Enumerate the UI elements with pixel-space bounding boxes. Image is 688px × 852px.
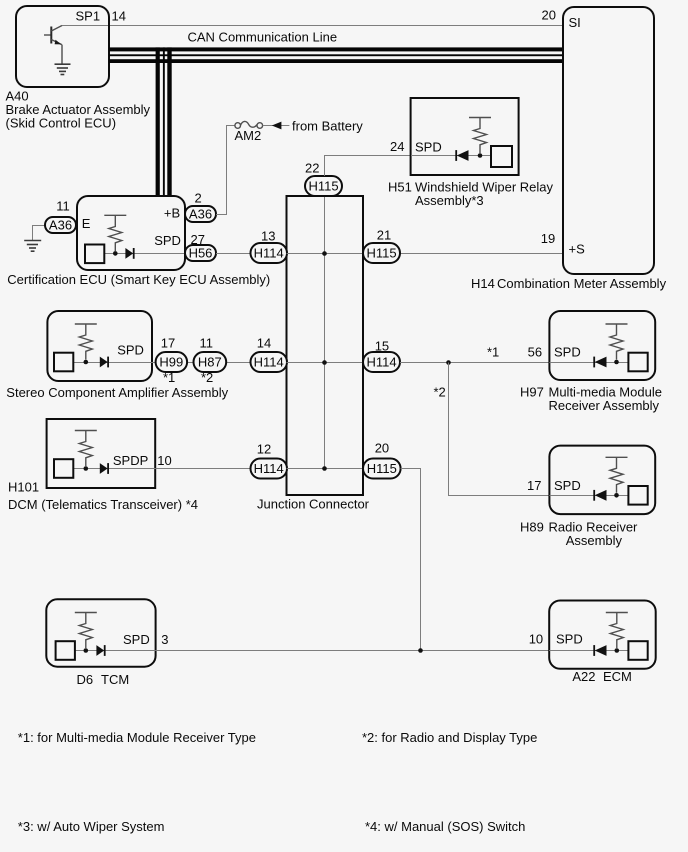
svg-text:+B: +B	[164, 206, 180, 221]
svg-text:H89: H89	[520, 520, 544, 535]
svg-text:*2: *2	[434, 385, 446, 400]
label A22 ECM	[572, 669, 631, 684]
junction dot (certification ECU)	[113, 251, 118, 256]
svg-text:H99: H99	[159, 355, 183, 370]
svg-text:14: 14	[257, 336, 271, 351]
svg-text:20: 20	[542, 8, 556, 23]
svg-text:17: 17	[161, 336, 175, 351]
diode (ECM)	[594, 645, 606, 656]
resistor (TCM)	[75, 613, 97, 649]
wire branch row2 to H89	[449, 363, 550, 496]
svg-text:19: 19	[541, 231, 555, 246]
junction dot row4	[418, 648, 423, 653]
junction dot (stereo)	[84, 360, 89, 365]
label H14 Combination Meter Assembly	[471, 276, 667, 291]
svg-text:H114: H114	[254, 246, 284, 261]
label H89 Radio Receiver Assembly	[520, 520, 638, 548]
junction connector bus line	[324, 196, 326, 469]
ECU H101 DCM (Telematics Transceiver)	[47, 419, 156, 488]
junction dot (H51)	[478, 153, 483, 158]
wire from A36 pin 2 to fuse AM2	[216, 126, 235, 215]
wire row2 stereo to junction connector	[152, 362, 287, 364]
wire from H115 pin 22 to windshield wiper relay	[325, 156, 412, 177]
svg-text:Junction Connector: Junction Connector	[257, 497, 370, 512]
connector H87 pin 11	[194, 336, 227, 386]
svg-text:*2: for Radio and Display Type: *2: for Radio and Display Type	[362, 730, 537, 745]
svg-text:H114: H114	[254, 461, 284, 476]
wire row1 inside junction connector	[287, 253, 364, 255]
svg-text:+S: +S	[569, 242, 586, 257]
wire row1 H56 to junction connector	[216, 253, 287, 255]
resistor (stereo)	[75, 324, 97, 360]
diode (TCM)	[96, 645, 104, 656]
diode (H89)	[594, 490, 606, 501]
svg-text:SPDP: SPDP	[113, 453, 148, 468]
svg-text:Receiver Assembly: Receiver Assembly	[549, 398, 660, 413]
svg-text:TCM: TCM	[101, 672, 129, 687]
wire from SP1 collector to H14 SI	[62, 25, 563, 27]
wire inside H97	[549, 362, 628, 364]
svg-text:H97: H97	[520, 385, 544, 400]
terminal square (H89)	[628, 486, 647, 505]
svg-text:SI: SI	[569, 15, 581, 30]
wire row3 inside junction connector	[287, 468, 364, 470]
connector H99 pin 17	[156, 336, 188, 386]
svg-text:H56: H56	[189, 246, 213, 261]
svg-text:Certification ECU (Smart Key E: Certification ECU (Smart Key ECU Assembl…	[7, 272, 270, 287]
svg-text:*2: *2	[201, 370, 213, 385]
svg-text:H87: H87	[198, 355, 222, 370]
connector H114 pin 14	[251, 336, 288, 373]
svg-text:H101: H101	[8, 480, 39, 495]
svg-text:AM2: AM2	[235, 128, 262, 143]
svg-text:SPD: SPD	[117, 343, 144, 358]
connector H114 pin 12	[251, 442, 288, 479]
svg-text:H14: H14	[471, 276, 495, 291]
connector H56 pin 27	[185, 232, 216, 261]
svg-text:A36: A36	[189, 207, 212, 222]
svg-text:H51: H51	[388, 180, 412, 195]
CAN bus horizontal	[109, 47, 563, 63]
svg-text:H115: H115	[367, 461, 397, 476]
connector H115 pin 21	[363, 228, 400, 264]
ground (Certification ECU pin E)	[24, 226, 45, 252]
diode (H97)	[594, 357, 606, 368]
terminal square (certification ECU)	[85, 245, 104, 264]
label D6 TCM	[77, 672, 130, 687]
wire inside H89	[549, 495, 628, 497]
terminal square (H97)	[628, 353, 647, 372]
label H51 Windshield Wiper Relay Assembly	[388, 180, 553, 208]
svg-text:20: 20	[375, 441, 389, 456]
svg-text:H114: H114	[254, 355, 284, 370]
svg-text:14: 14	[112, 9, 126, 24]
svg-text:SPD: SPD	[415, 140, 442, 155]
wire row2 inside junction connector	[287, 362, 364, 364]
junction dot row3	[322, 466, 327, 471]
label H97 Multi-media Module Receiver Assembly	[520, 385, 662, 413]
wire inside stereo amplifier	[74, 362, 153, 364]
wire row3 to TCM-ECM wire	[401, 469, 421, 651]
fuse AM2	[235, 121, 263, 143]
svg-text:22: 22	[305, 161, 319, 176]
ECU H97 Multi-media Module Receiver Assembly	[549, 311, 655, 380]
wire row2 to H97	[400, 362, 549, 364]
ground (A40 transistor emitter)	[55, 64, 71, 74]
diode (DCM)	[100, 463, 108, 474]
connector H115 pin 20	[363, 441, 401, 479]
connector H115 pin 22	[305, 161, 342, 197]
svg-text:Assembly*3: Assembly*3	[415, 193, 484, 208]
resistor (H89)	[606, 457, 628, 493]
arrow from Battery	[272, 122, 282, 130]
svg-text:*3: w/ Auto Wiper System: *3: w/ Auto Wiper System	[18, 819, 165, 834]
ECU Certification ECU (Smart Key ECU Assembly)	[77, 196, 185, 270]
svg-text:(Skid Control ECU): (Skid Control ECU)	[6, 115, 117, 130]
svg-text:*1: *1	[487, 345, 499, 360]
svg-text:CAN Communication Line: CAN Communication Line	[188, 30, 338, 45]
transistor SP1	[44, 26, 62, 65]
resistor (DCM)	[75, 431, 97, 467]
ECU H89 Radio Receiver Assembly	[549, 446, 655, 514]
wire inside DCM	[74, 468, 156, 470]
terminal square (ECM)	[628, 641, 647, 660]
resistor (certification ECU)	[104, 215, 126, 251]
wire inside H51	[411, 155, 491, 157]
terminal square (H51)	[491, 146, 512, 167]
junction dot row2	[322, 360, 327, 365]
svg-text:D6: D6	[77, 672, 94, 687]
label A40 Brake Actuator Assembly	[6, 89, 151, 131]
svg-text:SPD: SPD	[556, 632, 583, 647]
connector A36 pin 11	[45, 199, 76, 234]
svg-text:H115: H115	[308, 179, 338, 194]
diode (stereo)	[100, 357, 108, 368]
svg-text:*4: w/ Manual (SOS) Switch: *4: w/ Manual (SOS) Switch	[365, 819, 525, 834]
svg-text:11: 11	[56, 199, 70, 214]
svg-text:DCM (Telematics Transceiver) *: DCM (Telematics Transceiver) *4	[8, 497, 198, 512]
svg-text:Combination Meter Assembly: Combination Meter Assembly	[497, 276, 667, 291]
junction dot (TCM)	[84, 648, 89, 653]
wire row3 DCM to junction connector	[155, 468, 286, 470]
connector H114 pin 13	[251, 229, 288, 264]
junction dot (H97)	[614, 360, 619, 365]
svg-text:from Battery: from Battery	[292, 118, 363, 133]
junction connector box	[287, 196, 364, 495]
svg-text:17: 17	[527, 478, 541, 493]
terminal square (DCM)	[54, 459, 73, 478]
svg-text:13: 13	[261, 229, 275, 244]
svg-text:Stereo Component Amplifier Ass: Stereo Component Amplifier Assembly	[6, 385, 228, 400]
svg-text:E: E	[82, 216, 91, 231]
svg-text:A36: A36	[49, 218, 72, 233]
wire inside certification ECU	[104, 253, 185, 255]
wire inside ECM	[549, 650, 628, 652]
svg-text:2: 2	[195, 191, 202, 206]
wire +S from H115(21) to H14 pin 19	[401, 253, 564, 255]
terminal square (stereo)	[54, 353, 73, 372]
connector H114 pin 15	[363, 339, 400, 373]
svg-text:3: 3	[161, 632, 168, 647]
svg-text:11: 11	[200, 336, 214, 351]
svg-text:SPD: SPD	[554, 345, 581, 360]
diode (H51)	[456, 150, 468, 161]
svg-text:12: 12	[257, 442, 271, 457]
junction dot row2 branch	[446, 360, 451, 365]
svg-text:SP1: SP1	[76, 9, 101, 24]
junction dot row1	[322, 251, 327, 256]
wire inside TCM	[75, 650, 156, 652]
relay H51 Windshield Wiper Relay Assembly	[411, 98, 519, 175]
svg-text:24: 24	[390, 139, 404, 154]
resistor (H51)	[469, 118, 491, 154]
resistor (H97)	[606, 324, 628, 360]
svg-text:SPD: SPD	[154, 233, 181, 248]
resistor (ECM)	[606, 613, 628, 649]
svg-text:*1: for Multi-media Module Rec: *1: for Multi-media Module Receiver Type	[18, 730, 256, 745]
ECU Stereo Component Amplifier Assembly	[47, 311, 152, 381]
connector A36 pin 2	[185, 191, 216, 223]
svg-text:21: 21	[377, 228, 391, 243]
ECU A22 ECM	[549, 601, 656, 669]
junction dot (ECM)	[615, 648, 620, 653]
svg-text:Assembly: Assembly	[566, 533, 623, 548]
junction dot (DCM)	[84, 466, 89, 471]
svg-text:SPD: SPD	[554, 478, 581, 493]
terminal square (TCM)	[56, 641, 75, 660]
ECU H14 Combination Meter Assembly	[563, 7, 654, 274]
CAN bus vertical branch	[156, 47, 172, 196]
svg-text:*1: *1	[163, 370, 175, 385]
ECU D6 TCM	[46, 599, 155, 666]
svg-text:ECM: ECM	[603, 669, 632, 684]
svg-text:A22: A22	[572, 669, 595, 684]
svg-text:10: 10	[529, 632, 543, 647]
wire to battery arrow	[263, 125, 290, 127]
svg-text:SPD: SPD	[123, 632, 150, 647]
wire row4 TCM to ECM	[156, 650, 550, 652]
label H101 DCM	[8, 480, 198, 513]
junction dot (H89)	[614, 493, 619, 498]
svg-text:H114: H114	[366, 355, 396, 370]
svg-text:10: 10	[157, 453, 171, 468]
ECU A40 (Brake Actuator Assembly)	[16, 6, 109, 87]
diode (certification ECU)	[125, 248, 133, 259]
svg-text:H115: H115	[366, 246, 396, 261]
svg-text:56: 56	[528, 345, 542, 360]
